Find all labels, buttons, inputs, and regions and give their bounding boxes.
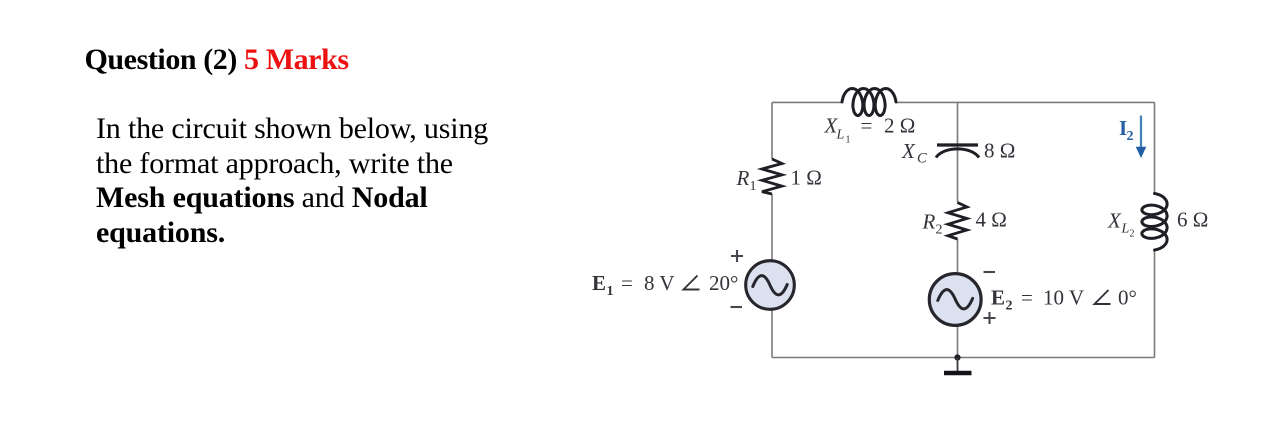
svg-text:R: R xyxy=(922,210,936,234)
svg-text:8 Ω: 8 Ω xyxy=(984,139,1015,163)
minus sign of E1 xyxy=(731,306,743,308)
svg-text:1: 1 xyxy=(846,135,851,146)
label E2 = 10 V angle 0deg xyxy=(991,286,1137,314)
capacitor XC top plate xyxy=(937,143,978,146)
svg-text:X: X xyxy=(901,139,916,163)
svg-text:2: 2 xyxy=(1006,299,1013,314)
svg-text:20°: 20° xyxy=(709,271,738,295)
svg-text:1: 1 xyxy=(750,179,757,194)
junction node dot at bottom middle xyxy=(954,354,960,360)
label XC xyxy=(901,139,927,167)
ground stub wire xyxy=(957,358,959,372)
inductor XL2 coil xyxy=(1142,194,1167,251)
svg-text:2 Ω: 2 Ω xyxy=(884,114,915,138)
wire: left vertical between R1 and E1 xyxy=(771,194,773,260)
angle symbol for E1 xyxy=(684,276,700,290)
svg-text:X: X xyxy=(1107,209,1122,233)
angle symbol for E2 xyxy=(1095,290,1111,304)
question body text xyxy=(96,112,488,250)
wire: left vertical upper (node to R1) xyxy=(771,102,773,159)
wire: middle vertical through capacitor to R2 xyxy=(957,102,959,202)
svg-text:6 Ω: 6 Ω xyxy=(1177,208,1208,232)
svg-text:4 Ω: 4 Ω xyxy=(976,208,1007,232)
svg-text:E: E xyxy=(592,271,606,295)
svg-text:C: C xyxy=(917,151,927,167)
wire: middle vertical between R2 and E2 xyxy=(957,239,959,273)
ground bar xyxy=(944,371,972,376)
wire: top-left horizontal segment xyxy=(772,101,842,103)
question title xyxy=(85,43,349,77)
svg-text:R: R xyxy=(736,166,750,190)
plus sign of E2 xyxy=(984,312,996,324)
voltage source E1 circle xyxy=(746,261,795,310)
svg-text:2: 2 xyxy=(1130,229,1135,240)
svg-text:L: L xyxy=(836,128,845,143)
resistor R2 zigzag xyxy=(948,203,967,240)
svg-text:10 V: 10 V xyxy=(1043,286,1084,310)
wire: right vertical below XL2 xyxy=(1154,250,1156,358)
label XL1 = 2 ohm xyxy=(824,114,916,146)
label XL2 xyxy=(1107,209,1135,240)
wire: middle vertical below E2 xyxy=(957,326,959,358)
wire: left vertical below E1 xyxy=(771,310,773,358)
svg-text:2: 2 xyxy=(1127,129,1134,144)
wire: bottom horizontal xyxy=(772,357,1155,359)
svg-text:=: = xyxy=(1021,286,1033,310)
current I2 arrow (blue) xyxy=(1136,116,1147,159)
voltage source E1 sine wave xyxy=(753,276,787,295)
plus sign of E1 xyxy=(731,250,996,324)
capacitor XC bottom curved plate xyxy=(936,149,979,158)
svg-text:1: 1 xyxy=(607,284,614,299)
label R1 xyxy=(736,166,757,194)
resistor R1 zigzag xyxy=(762,159,782,194)
svg-text:8 V: 8 V xyxy=(644,271,675,295)
svg-text:2: 2 xyxy=(936,223,943,238)
label I2 (blue) xyxy=(1119,116,1134,144)
voltage source E2 circle xyxy=(929,274,981,326)
minus sign of E2 xyxy=(984,271,996,273)
svg-text:L: L xyxy=(1121,222,1130,237)
wire: right vertical above XL2 xyxy=(1154,102,1156,193)
label E1 = 8 V angle 20deg xyxy=(592,271,738,299)
svg-text:=: = xyxy=(861,114,873,138)
wire: top-right horizontal segment xyxy=(896,101,1155,103)
label R2 xyxy=(922,210,943,238)
voltage source E2 sine wave xyxy=(938,290,973,309)
svg-text:1 Ω: 1 Ω xyxy=(791,166,822,190)
svg-text:=: = xyxy=(621,271,633,295)
svg-text:0°: 0° xyxy=(1118,286,1137,310)
svg-text:E: E xyxy=(991,286,1005,310)
inductor XL1 coil xyxy=(842,89,896,116)
